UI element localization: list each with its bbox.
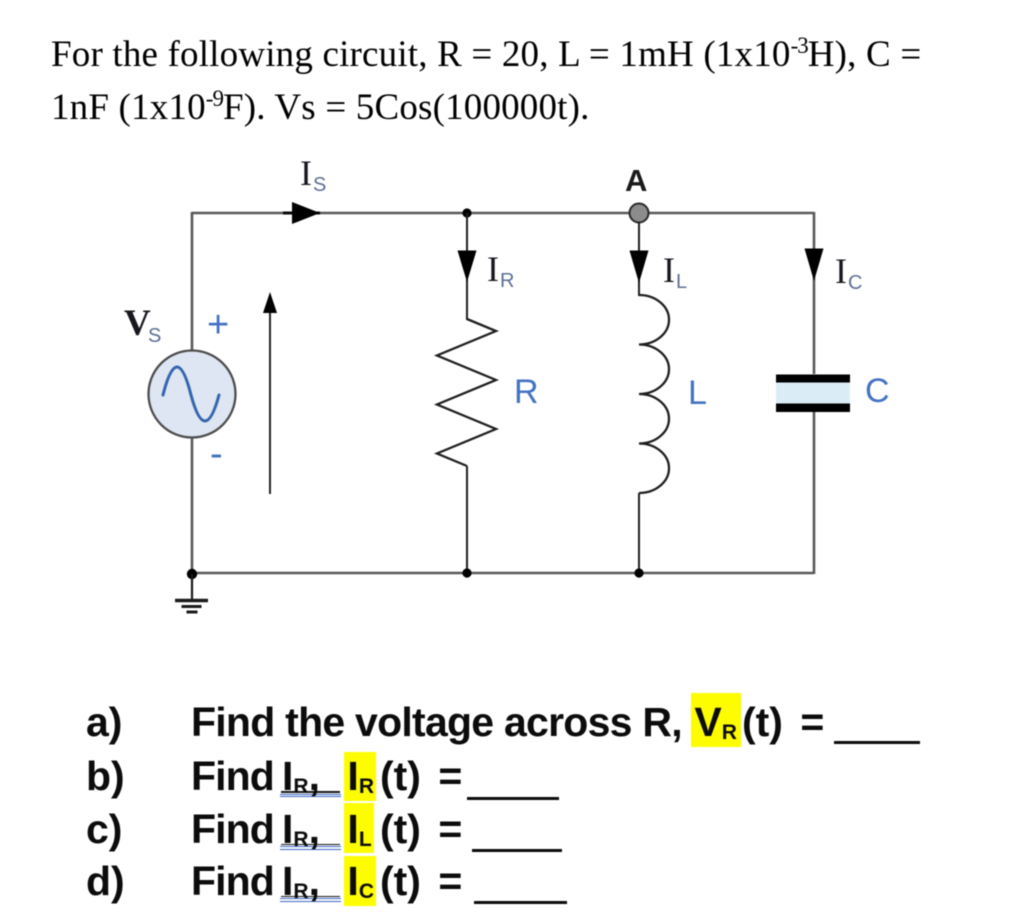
junction dot: inductor bottom [634,568,643,577]
question d [86,858,125,905]
sine wave inside source [163,367,219,421]
svg-text:I: I [300,153,312,193]
voltage source Vs (circle with sine) [149,351,236,438]
junction dot: resistor bottom [462,568,471,577]
wire: right vertical upper (capacitor top lead) [813,212,816,374]
wire: inductor bottom lead [638,493,640,573]
arrow IL [630,251,649,284]
junction dot: resistor top [462,208,471,217]
svg-text:I: I [663,250,675,290]
question a [86,699,122,746]
capacitor C top plate [776,375,850,383]
wire: right vertical lower (capacitor bottom lead) [813,411,816,574]
node A (gray terminal dot) [630,204,649,223]
wire: left vertical lower (source bottom lead) [191,438,194,574]
wire: inductor top lead [638,222,640,296]
arrow IR [458,251,477,283]
arrow Is on top wire [292,202,320,224]
wire: top horizontal [192,212,814,215]
svg-text:S: S [313,174,326,196]
capacitor C dielectric (light blue) [776,377,850,408]
svg-text:R: R [514,373,539,411]
svg-text:I: I [487,249,499,289]
arrow IC [805,249,824,282]
question b [86,753,125,800]
problem statement text [51,24,1001,129]
svg-text:-: - [210,433,223,475]
question c [86,806,122,853]
wire: bottom horizontal [192,572,814,575]
wire: resistor bottom lead [466,466,468,573]
svg-text:L: L [676,271,687,293]
reference arrow (upward) inside loop [269,308,271,494]
svg-text:I: I [835,251,847,291]
svg-text:+: + [207,304,229,346]
svg-text:C: C [848,272,862,294]
svg-text:L: L [688,374,707,412]
underline marks under "IR," (black + blue grammar double lines) [281,791,340,793]
svg-text:A: A [625,163,647,198]
ground symbol [191,574,193,600]
svg-text:C: C [865,372,890,410]
capacitor C bottom plate [776,404,850,413]
wire: resistor top lead [466,213,468,320]
wire: left vertical upper (source top lead) [191,212,194,350]
resistor R (zigzag) [437,319,496,466]
svg-text:R: R [500,270,514,292]
arrow Is tail segment [283,212,320,215]
inductor L (4 arcs) [639,295,669,493]
svg-text:V: V [124,303,151,344]
svg-text:S: S [148,325,161,347]
junction dot: ground node [187,569,197,579]
